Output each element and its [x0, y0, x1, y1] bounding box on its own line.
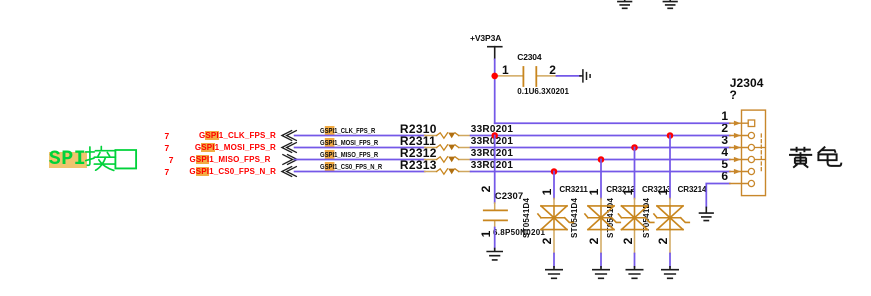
- text 接口 (green): [86, 146, 116, 170]
- wire: row2 down to CR3213: [634, 148, 636, 199]
- connector pin 5 stub: [730, 171, 749, 173]
- junction row2 to CR3213: [631, 144, 638, 151]
- wire: connector pin 6 to ground: [706, 184, 730, 208]
- C2304 pin number 2: [549, 64, 556, 76]
- ground (top right of pair): [663, 0, 677, 8]
- text SPI (green highlighted): [49, 150, 87, 170]
- ref R2313: [400, 159, 437, 171]
- ref CR3212: [606, 186, 635, 194]
- value 33R0201 row4: [471, 161, 513, 171]
- connector pin 5 arrow: [734, 169, 741, 174]
- wire: horizontal to connector pin 1: [495, 122, 730, 124]
- connector pin 3 stub: [730, 147, 749, 149]
- off-page connector chevron row1: [282, 130, 297, 140]
- wire: power stem down to junction: [494, 59, 496, 76]
- connector pin 1 square pad: [748, 120, 755, 127]
- CR3214 pin 2 (rotated): [657, 235, 669, 247]
- power symbol +V3P3A: [488, 47, 502, 60]
- junction row3 to CR3212: [598, 156, 605, 163]
- junction at C2304 pin1 / +V3P3A: [491, 73, 498, 80]
- C2307 pin number 2 (rotated): [480, 183, 492, 195]
- ref CR3214: [678, 186, 707, 194]
- wire row2 right segment: [471, 147, 730, 149]
- red net name GSPI1_MOSI_FPS_R: [156, 144, 276, 152]
- ground at connector pin 6: [700, 207, 714, 220]
- connector pin number 4: [708, 146, 728, 158]
- net label GSPI1_MISO_FPS_R: [320, 151, 378, 158]
- value 6.8P50N0201: [493, 229, 545, 237]
- connector pin 3 arrow: [734, 145, 741, 150]
- CR3214 pin 1 (rotated): [657, 186, 669, 198]
- C2304 pin number 1: [502, 64, 509, 76]
- connector J2304 body: [742, 110, 766, 196]
- resistor R2313: [425, 169, 471, 175]
- junction row1 to C2307: [491, 132, 498, 139]
- red net name GSPI1_CS0_FPS_N_R: [156, 168, 276, 176]
- net label GSPI1_CLK_FPS_R: [320, 127, 375, 134]
- highlight box behind SPI: [49, 152, 87, 168]
- net label GSPI1_MOSI_FPS_R: [320, 139, 378, 146]
- junction row4 to CR3211: [551, 168, 558, 175]
- wire: row1 down to CR3214: [669, 136, 671, 199]
- connector pin 4 arrow: [734, 157, 741, 162]
- value 0.1U6.3X0201: [517, 88, 569, 96]
- wire row2 left segment: [295, 147, 425, 149]
- capacitor C2304 leads: [496, 75, 556, 77]
- value 33R0201 row1: [471, 125, 513, 135]
- wire row4 right segment: [471, 171, 730, 173]
- connector pin 4 stub: [730, 159, 749, 161]
- text 黄 (black): [789, 147, 812, 168]
- value ST0541D4 for CR3214 (rotated): [643, 198, 653, 238]
- wire: C2307 pin1 to ground: [494, 228, 496, 249]
- value ST0541D4 for CR3213 (rotated): [607, 198, 617, 238]
- off-page connector chevron row4: [282, 166, 297, 176]
- page ref 7 row4: [165, 168, 170, 177]
- ground under CR3211: [546, 267, 562, 279]
- ground under C2307: [487, 249, 502, 260]
- wire: CR3211 to ground: [553, 254, 555, 267]
- off-page connector chevron row3 (points right): [282, 154, 297, 164]
- connector pin number 3: [708, 134, 728, 146]
- wire row1 right segment: [471, 135, 730, 137]
- wire row4 left segment: [295, 171, 425, 173]
- connector pin 4 pad: [748, 156, 754, 162]
- resistor R2310: [425, 133, 471, 139]
- connector pin number 5: [708, 158, 728, 170]
- diode CR3212: [585, 199, 620, 254]
- diode CR3213: [618, 199, 653, 254]
- text 口 (green): [115, 150, 136, 168]
- wire: C2304 pin2 to ground: [557, 75, 581, 77]
- label C2304: [517, 53, 541, 62]
- ground under CR3213: [626, 267, 642, 279]
- wire: CR3213 to ground: [634, 254, 636, 267]
- ref R2310: [400, 123, 437, 135]
- net label GSPI1_CS0_FPS_N_R: [320, 163, 382, 170]
- page ref 7 row1: [165, 132, 170, 141]
- wire row3 left segment: [295, 159, 425, 161]
- CR3211 pin 2 (rotated): [541, 235, 553, 247]
- wire row1 left segment: [295, 135, 425, 137]
- connector pin 2 arrow: [734, 133, 741, 138]
- off-page connector chevron row2: [282, 142, 297, 152]
- connector pin number 2: [708, 122, 728, 134]
- label +V3P3A: [470, 34, 501, 43]
- CR3213 pin 2 (rotated): [622, 235, 634, 247]
- diode CR3211: [538, 199, 573, 254]
- connector pin number 1: [708, 110, 728, 122]
- connector pin 4 internal stub: [755, 159, 766, 161]
- value ST0541D4 for CR3211 (rotated): [523, 198, 533, 238]
- label ?: [730, 89, 737, 101]
- ground (rotated, right of C2304): [580, 70, 590, 82]
- value 33R0201 row2: [471, 137, 513, 147]
- wire: CR3214 to ground: [669, 254, 671, 267]
- ground under CR3212: [593, 267, 609, 279]
- label C2307: [495, 192, 524, 202]
- CR3212 pin 2 (rotated): [588, 235, 600, 247]
- ground under CR3214: [662, 267, 678, 279]
- text 色 (black): [818, 147, 842, 166]
- diode CR3214: [654, 199, 689, 254]
- wire: row3 down to CR3212: [600, 160, 602, 199]
- capacitor C2304 plates: [523, 67, 536, 86]
- ref CR3211: [559, 186, 587, 194]
- connector keying dashed line: [760, 134, 762, 173]
- ground (top left of pair): [618, 0, 632, 8]
- connector pin number 6: [708, 170, 728, 182]
- ref R2311: [400, 135, 436, 147]
- wire: junction down to elbow for pin 1: [494, 76, 496, 123]
- connector pin 6 pad: [748, 180, 754, 186]
- connector pin 2 pad: [748, 132, 754, 138]
- resistor R2311: [425, 145, 471, 151]
- ref CR3213: [642, 186, 671, 194]
- junction row1 to CR3214: [667, 132, 674, 139]
- label J2304: [730, 77, 764, 89]
- connector pin 3 internal stub: [755, 147, 766, 149]
- value 33R0201 row3: [471, 149, 513, 159]
- red net name GSPI1_CLK_FPS_R: [156, 132, 276, 140]
- capacitor C2307 plates: [484, 210, 507, 220]
- connector pin 2 stub: [730, 135, 749, 137]
- wire: CR3212 to ground: [600, 254, 602, 267]
- wire row3 right segment: [471, 159, 730, 161]
- CR3212 pin 1 (rotated): [588, 186, 600, 198]
- connector pin 1 arrow: [734, 121, 741, 126]
- red net name GSPI1_MISO_FPS_R: [151, 156, 271, 164]
- wire: row1 down to C2307: [494, 136, 496, 204]
- capacitor C2307 leads: [494, 203, 496, 228]
- page ref 7 row2: [165, 144, 170, 153]
- connector pin 1 stub: [730, 122, 748, 124]
- CR3213 pin 1 (rotated): [622, 186, 634, 198]
- value ST0541D4 for CR3212 (rotated): [571, 198, 581, 238]
- C2307 pin number 1 (rotated): [480, 228, 492, 240]
- page ref 7 row3: [169, 156, 174, 165]
- resistor R2312: [425, 157, 471, 163]
- connector pin 6 stub: [730, 183, 749, 185]
- connector pin 3 pad: [748, 144, 754, 150]
- wire: row4 down to CR3211: [553, 172, 555, 199]
- connector pin 5 pad: [748, 168, 754, 174]
- CR3211 pin 1 (rotated): [541, 186, 553, 198]
- ref R2312: [400, 147, 437, 159]
